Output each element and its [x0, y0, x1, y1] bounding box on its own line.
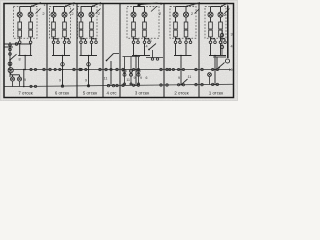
switch S2: [65, 3, 75, 14]
plug connector 3b: [90, 41, 93, 44]
lamp EL1b (circle with X): [28, 12, 33, 17]
branch stub and second plug 5a: [176, 39, 182, 44]
wire horizontal tie 2: [52, 55, 70, 57]
wire plug-to-tie 6a: [210, 44, 212, 56]
outer border of hull/schematic frame: [4, 4, 234, 98]
lamp on drop wire at x=62.5: [61, 63, 65, 67]
svg-text:3: 3: [230, 33, 232, 37]
wire top tie 2: [54, 7, 65, 13]
bulkhead coupler pair on lower wire at x=164: [160, 84, 168, 86]
wire plug-to-tie 6b: [220, 44, 222, 56]
plug connector 2b: [63, 41, 66, 44]
wire right assembly to bus: [216, 57, 218, 70]
lamp EL2b (circle with X): [62, 12, 67, 17]
wire drop to bus 5: [180, 55, 182, 71]
svg-text:5 отсек: 5 отсек: [83, 91, 97, 96]
wire lamp-to-resistor 3b: [91, 17, 93, 22]
svg-text:11: 11: [188, 75, 192, 79]
resistor R3b-2: [90, 30, 94, 37]
wire plug-to-tie 4a: [133, 44, 135, 56]
wire plug-to-tie 5b: [185, 44, 187, 56]
plug pair on lower wire at x=136: [133, 84, 140, 86]
terminal circles on left riser: [9, 44, 12, 56]
drop wires with couplers compartment 3: [123, 57, 140, 86]
svg-text:11: 11: [126, 78, 130, 82]
svg-text:2 отсек: 2 отсек: [174, 91, 188, 96]
wire horizontal tie 6: [209, 55, 226, 57]
lower feeder wire (slightly skewed): [5, 84, 234, 86]
wire resistor-down 4b: [144, 37, 146, 41]
plug connector 2a: [52, 41, 55, 44]
svg-text:I: I: [227, 2, 228, 7]
wire drop bus-to-lower at x=215: [214, 69, 216, 85]
wire drop bus-to-lower at x=136: [135, 69, 137, 86]
wire horizontal tie 1: [18, 55, 32, 57]
plug pair compartment 4 on lower wire: [107, 84, 114, 86]
motor-generator M left: [8, 68, 13, 73]
wire resistor-down 2a: [53, 37, 55, 41]
plug connector 1b: [29, 41, 32, 44]
branch stub and second plug 2b: [65, 39, 71, 44]
switch at lower wire compartment 2: [181, 79, 188, 85]
wire number labels 1: [42, 2, 46, 16]
lamp EL5b (circle with X): [184, 12, 189, 17]
resistor R1a-2: [18, 30, 22, 37]
lamp EL5a (circle with X): [173, 12, 178, 17]
plug connector 3a: [80, 41, 83, 44]
lamp EL4a (circle with X): [131, 12, 136, 17]
wire plug-to-tie 4b: [144, 44, 146, 56]
wire number labels 6: [224, 12, 227, 17]
resistor R4b-1: [143, 22, 147, 29]
stub wire to border y=47 with plug: [5, 46, 14, 48]
wire horizontal compartment 7 at y=44: [5, 43, 32, 45]
main distribution bus wire y=69.5: [8, 69, 232, 71]
wire number labels 5: [191, 2, 195, 17]
wire drop bus-to-lower at x=23.8: [23, 69, 25, 87]
plug pair on bus at x=181: [178, 68, 185, 70]
dashed enclosure box 3: [78, 6, 98, 38]
plug pair on bus left of x=62.5: [54, 68, 61, 70]
wire lamp-to-resistor 5b: [185, 17, 187, 22]
dashed enclosure box 6: [205, 6, 226, 38]
dashed enclosure box 5: [170, 6, 196, 38]
branch stub and second plug 6b: [221, 39, 227, 44]
plug connector 4b: [143, 41, 146, 44]
svg-text:4: 4: [230, 45, 232, 49]
plug pair on bus at x=136: [133, 68, 140, 70]
switch in compartment 4: [106, 54, 119, 62]
wire drop to bus 3: [88, 55, 90, 71]
svg-text:10: 10: [229, 68, 233, 72]
branch stub and second plug 3a: [81, 39, 87, 44]
lamp EL6b (circle with X): [218, 12, 223, 17]
tie wire compartment 3 drops: [123, 56, 141, 58]
stub wire to border y=44: [5, 43, 18, 46]
wire number labels 3: [98, 2, 102, 16]
resistor R6a-1: [209, 22, 213, 29]
plug connector 6b: [219, 41, 222, 44]
bulkhead coupler pair on bus at x=120: [116, 68, 124, 70]
wire lamp-to-resistor 1a: [19, 17, 21, 22]
measuring circles on right wire: [220, 30, 223, 56]
resistor R2b-1: [63, 22, 67, 29]
wire number labels 4: [159, 1, 163, 16]
switch S5: [186, 3, 200, 14]
plug pair on bus at x=215: [212, 68, 219, 70]
bulkhead coupler pair on lower wire at x=120: [116, 84, 124, 86]
wire lamp-to-resistor 4b: [144, 17, 146, 22]
switch S4: [138, 3, 158, 12]
wire horizontal tie 3: [80, 55, 98, 57]
bulkhead divider line 3 at x=103: [102, 4, 104, 98]
main feeder line I (heavy vertical right): [227, 6, 229, 59]
switch in compartment 3: [146, 44, 163, 61]
resistor R5a-2: [174, 30, 178, 37]
wire lamp-to-resistor 2a: [53, 17, 55, 22]
wire resistor-down 6b: [220, 37, 222, 41]
branch stub and second plug 4b: [145, 39, 151, 44]
svg-text:9: 9: [140, 76, 142, 80]
wire drop to bus 2: [62, 55, 64, 71]
lamp EL3a (circle with X): [79, 12, 84, 17]
branch stub and second plug 5b: [186, 39, 192, 44]
resistor R5b-1: [184, 22, 188, 29]
wire drop to bus 1: [24, 55, 26, 71]
bulkhead coupler pair on bus at x=103: [99, 68, 107, 70]
wire horizontal tie 5: [174, 55, 192, 57]
resistor R3a-2: [79, 30, 83, 37]
resistor R2a-1: [52, 22, 56, 29]
resistor R6b-2: [219, 30, 223, 37]
wire top tie 5: [176, 7, 187, 13]
bulkhead coupler pair on bus at x=164: [160, 68, 168, 70]
wire drop compartment 4: [110, 61, 112, 86]
lamp EL-7b lower left (circle-X): [17, 77, 21, 87]
switch S1: [31, 3, 41, 14]
plug at drop bottom x=88.5: [87, 85, 89, 87]
wire resistor-down 2b: [64, 37, 66, 41]
switch right assembly: [213, 57, 226, 68]
lamp EL1a (circle with X): [17, 12, 22, 17]
feeder riser wire left: [9, 42, 11, 77]
branch stub and second plug 4a: [134, 39, 140, 44]
bus junction circle compartment 4: [110, 68, 112, 70]
svg-text:6: 6: [149, 39, 151, 43]
wire number labels 2: [71, 2, 75, 16]
labels 9 9 6 compartment 3: [134, 76, 148, 80]
svg-text:9: 9: [178, 76, 180, 80]
svg-text:6 отсек: 6 отсек: [55, 91, 69, 96]
bulkhead coupler pair on bus at x=47: [43, 68, 51, 70]
wire plug-to-tie 1b: [30, 44, 32, 56]
wire lamp-to-resistor 2b: [64, 17, 66, 22]
lamp EL-7a lower left (circle-X): [10, 77, 14, 87]
wire top tie 6: [211, 7, 221, 13]
dashed enclosure box 1: [14, 6, 38, 38]
svg-text:11: 11: [104, 76, 108, 80]
wire drop bus-to-lower at x=62.5: [62, 69, 64, 87]
resistor R3b-1: [90, 22, 94, 29]
wire plug-to-tie 3b: [91, 44, 93, 56]
plug at drop bottom x=62.5: [61, 85, 63, 87]
wire plug-to-tie 3a: [80, 44, 82, 56]
plug pair on lower wire at x=181: [178, 84, 185, 86]
dashed enclosure box 4: [127, 6, 159, 38]
switch S3: [92, 3, 101, 14]
wire drop bus-to-lower at x=88.5: [88, 69, 90, 87]
resistor R1b-2: [29, 30, 33, 37]
bulkhead divider line 5 at x=164: [163, 4, 165, 98]
branch stub and second plug 2a: [54, 39, 60, 44]
wire plug-to-tie 5a: [175, 44, 177, 56]
plug pair compartment 7 lower wire: [30, 85, 37, 87]
lamp on drop wire at x=88.5: [87, 63, 91, 67]
bulkhead coupler pair on bus at x=77: [73, 68, 81, 70]
wire lamp-to-resistor 6a: [210, 17, 212, 22]
resistor R5b-2: [184, 30, 188, 37]
wire lamp-to-resistor 4a: [133, 17, 135, 22]
resistor R6a-2: [209, 30, 213, 37]
plug pair on bus compartment 2: [169, 68, 175, 70]
wire left lamps header: [11, 73, 20, 77]
resistor R4b-2: [143, 30, 147, 37]
svg-text:9: 9: [59, 79, 61, 83]
wire resistor-down 3a: [80, 37, 82, 41]
branch stub and second plug 3b: [92, 39, 98, 44]
wire lamp-to-resistor 3a: [80, 17, 82, 22]
wire lamp-to-resistor 1b: [30, 17, 32, 22]
wire drop to bus 4: [135, 55, 137, 71]
resistor R3a-1: [79, 22, 83, 29]
bulkhead coupler pair on bus at x=199: [195, 68, 203, 70]
plug pair compartment 7 bus: [30, 68, 37, 70]
bulkhead divider line 4 at x=120: [119, 4, 121, 98]
resistor R2b-2: [63, 30, 67, 37]
resistor R1a-1: [18, 22, 22, 29]
wire drop to bus 6: [214, 55, 216, 71]
branch stub and second plug 6a: [211, 39, 217, 44]
wire horizontal tie 4: [132, 55, 150, 57]
resistor R5a-1: [174, 22, 178, 29]
wire drop bus-to-lower at x=181: [180, 69, 182, 86]
bulkhead coupler pair on lower wire at x=199: [195, 83, 203, 85]
svg-text:7 отсек: 7 отсек: [18, 91, 32, 96]
dashed enclosure box 2: [50, 6, 71, 38]
disconnect switch left (knife): [9, 54, 16, 61]
wire plug-to-tie 2b: [64, 44, 66, 56]
plug connector 1a: [18, 41, 21, 44]
wire resistor-down 1b: [30, 37, 32, 41]
feeder terminal circle right: [225, 59, 229, 63]
svg-text:4: 4: [145, 45, 147, 49]
resistor R2a-2: [52, 30, 56, 37]
resistor R1b-1: [29, 22, 33, 29]
plug connector 5b: [185, 41, 188, 44]
switch S6: [221, 3, 230, 13]
wire resistor-down 3b: [91, 37, 93, 41]
bulkhead divider line 2 at x=77: [76, 4, 78, 98]
bulkhead divider line 1 at x=47: [46, 4, 48, 98]
svg-text:3 отсек: 3 отсек: [135, 91, 149, 96]
wire lamp-to-resistor 5a: [175, 17, 177, 22]
plug connector 6a: [209, 41, 212, 44]
lamp EL3b (circle with X): [89, 12, 94, 17]
wire resistor-down 5a: [175, 37, 177, 41]
wire resistor-down 1a: [19, 37, 21, 41]
wire top tie 4: [134, 7, 145, 13]
svg-text:9: 9: [134, 76, 136, 80]
bulkhead divider line 6 at x=199: [198, 4, 200, 98]
lamp below bus compartment 1 (circle-X): [208, 73, 212, 85]
resistor R4a-1: [132, 22, 136, 29]
lamp on left riser (circle-X): [8, 62, 12, 66]
plug connector 4a: [132, 41, 135, 44]
svg-text:8: 8: [18, 58, 20, 62]
wire top tie 1: [20, 7, 31, 13]
resistor R4a-2: [132, 30, 136, 37]
lamp EL4b (circle with X): [142, 12, 147, 17]
wire resistor-down 5b: [185, 37, 187, 41]
svg-text:9: 9: [24, 78, 26, 82]
lamp EL6a (circle with X): [208, 12, 213, 17]
plug connector 5a: [174, 41, 177, 44]
wire plug-to-tie 1a: [19, 44, 21, 56]
svg-text:9: 9: [85, 79, 87, 83]
lamp EL2a (circle with X): [51, 12, 56, 17]
wire lamp-to-resistor 6b: [220, 17, 222, 22]
wire resistor-down 6a: [210, 37, 212, 41]
svg-text:1 отсек: 1 отсек: [209, 91, 223, 96]
wire top tie 3: [81, 7, 92, 13]
plug pair on bus left of x=88.5: [80, 68, 87, 70]
wire plug-to-tie 2a: [53, 44, 55, 56]
plug pair on lower wire at x=215: [212, 83, 219, 85]
svg-text:4 отс: 4 отс: [107, 91, 118, 96]
resistor R6b-1: [219, 22, 223, 29]
svg-text:6: 6: [146, 76, 148, 80]
wire resistor-down 4a: [133, 37, 135, 41]
